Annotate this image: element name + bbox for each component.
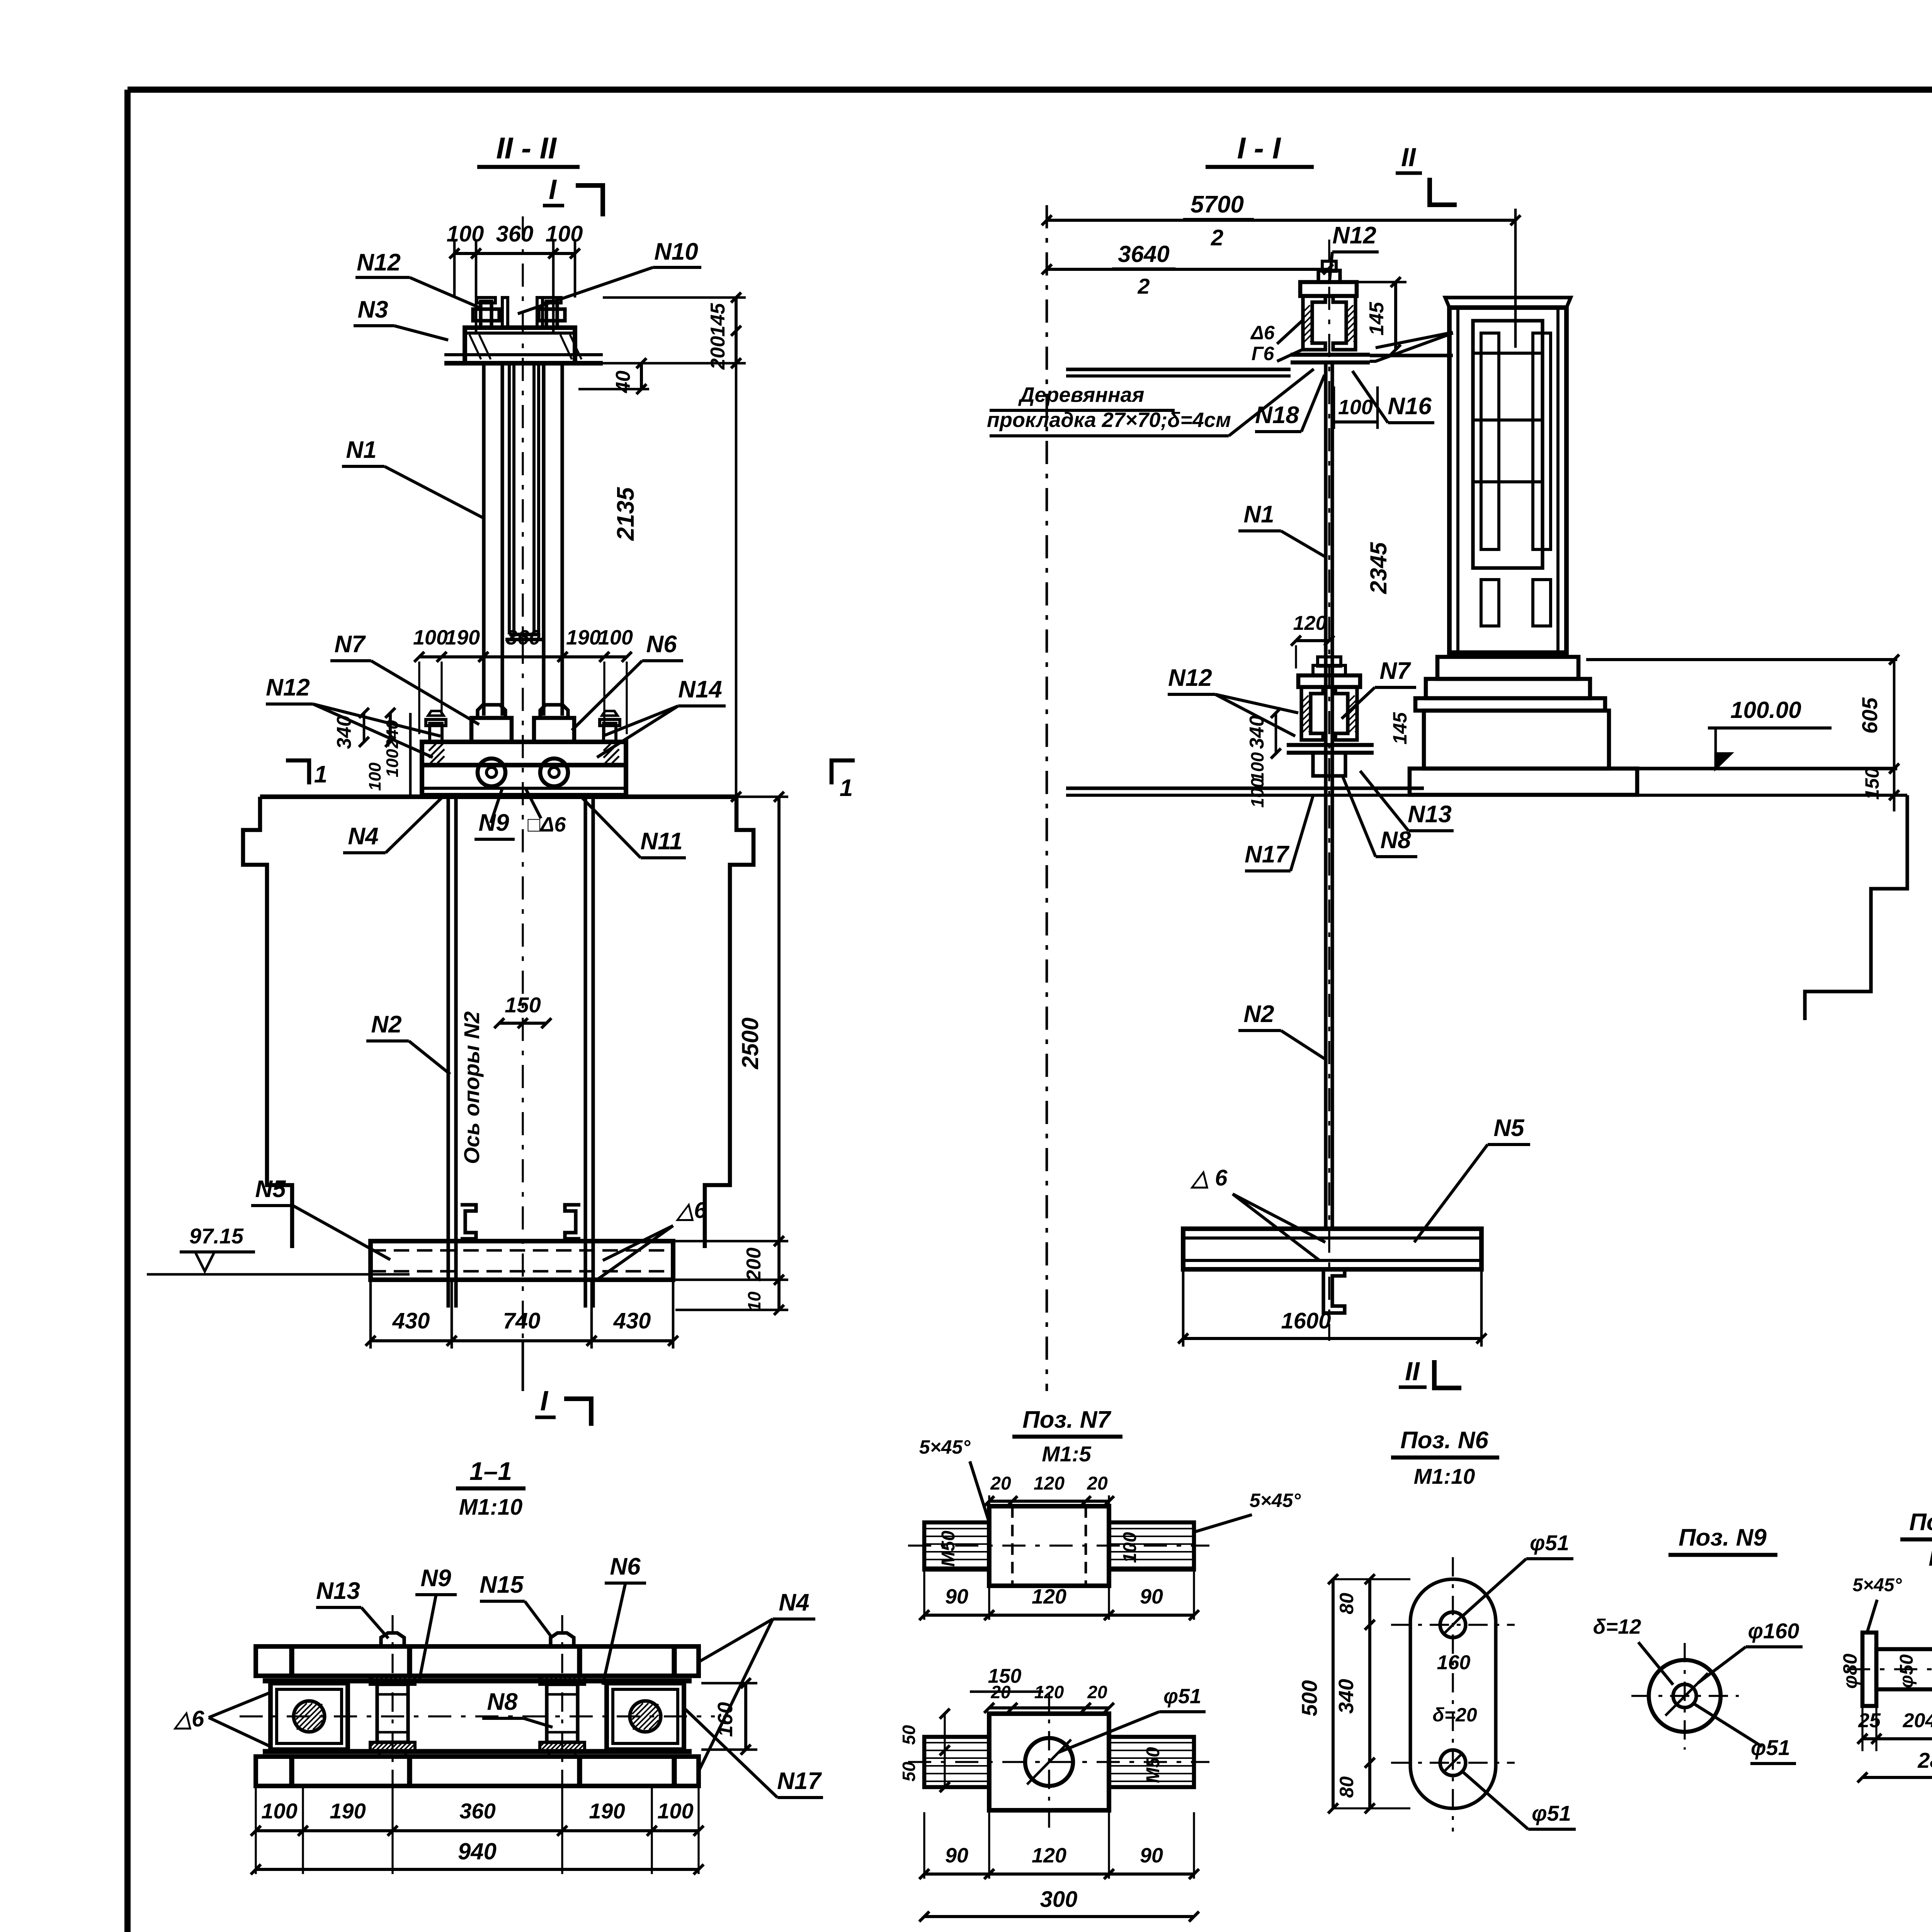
svg-text:100: 100	[1247, 752, 1267, 782]
vertical tie rods N1 (section II-II)	[482, 363, 485, 716]
svg-text:150: 150	[505, 993, 541, 1017]
svg-text:Поз. N6: Поз. N6	[1400, 1427, 1488, 1454]
dim 145 top right	[1358, 281, 1406, 284]
svg-text:430: 430	[613, 1308, 651, 1333]
svg-text:100: 100	[1120, 1532, 1140, 1563]
svg-text:I: I	[549, 174, 557, 205]
svg-text:100: 100	[447, 221, 484, 247]
svg-text:N2: N2	[371, 1011, 401, 1038]
svg-text:20: 20	[1087, 1473, 1108, 1494]
Poz N9 disc	[1649, 1660, 1721, 1732]
svg-text:N1: N1	[1243, 501, 1274, 528]
svg-text:Поз. N9: Поз. N9	[1679, 1524, 1767, 1551]
dim 150 inside pier	[499, 1022, 546, 1025]
svg-text:М1:5: М1:5	[1042, 1442, 1091, 1466]
left square tube with pin	[270, 1683, 348, 1750]
svg-text:2345: 2345	[1366, 542, 1391, 594]
Poz N8 dims	[1861, 1707, 1863, 1751]
svg-text:N12: N12	[1332, 222, 1376, 249]
svg-text:△6: △6	[675, 1198, 707, 1223]
svg-text:1600: 1600	[1281, 1308, 1331, 1333]
svg-text:φ50: φ50	[1896, 1654, 1917, 1688]
pin-joint bracket dims 100 190 360 190 100	[419, 655, 627, 658]
svg-text:200: 200	[707, 336, 729, 370]
svg-text:φ51: φ51	[1163, 1685, 1201, 1708]
svg-text:N2: N2	[1243, 1001, 1274, 1027]
svg-text:N7: N7	[1379, 658, 1411, 684]
svg-text:N15: N15	[480, 1571, 524, 1598]
svg-text:20: 20	[990, 1473, 1011, 1494]
svg-text:360: 360	[459, 1799, 495, 1823]
svg-text:200: 200	[743, 1248, 765, 1282]
svg-text:40: 40	[612, 371, 634, 393]
svg-text:II: II	[1405, 1357, 1420, 1386]
svg-text:Деревянная: Деревянная	[1018, 383, 1145, 406]
svg-text:1–1: 1–1	[469, 1457, 512, 1485]
svg-text:120: 120	[1032, 1585, 1066, 1608]
svg-text:145: 145	[707, 303, 729, 337]
svg-text:N4: N4	[348, 823, 378, 850]
svg-text:740: 740	[503, 1308, 541, 1333]
svg-text:δ=12: δ=12	[1593, 1615, 1641, 1638]
svg-text:50: 50	[899, 1725, 919, 1745]
svg-text:100: 100	[546, 221, 583, 247]
bolt assemblies in detail 1-1	[381, 1633, 404, 1646]
svg-text:145: 145	[1389, 712, 1411, 745]
svg-text:М50: М50	[1143, 1747, 1163, 1783]
svg-text:М1:5: М1:5	[1929, 1546, 1932, 1570]
svg-text:N16: N16	[1388, 393, 1432, 420]
svg-text:100.00: 100.00	[1730, 697, 1801, 723]
Poz N6 dims	[1332, 1579, 1335, 1808]
svg-text:I: I	[540, 1386, 549, 1417]
svg-text:Поз. N7: Поз. N7	[1022, 1406, 1111, 1433]
section marker I bottom	[522, 1341, 524, 1391]
svg-text:120: 120	[1034, 1682, 1064, 1702]
bottom channel (I-I)	[1183, 1229, 1481, 1269]
small channel stubs on pier	[461, 1205, 476, 1239]
svg-text:N14: N14	[678, 676, 722, 703]
svg-text:N7: N7	[334, 631, 366, 658]
bottom channel plate N5 (II-II)	[371, 1241, 673, 1280]
section marker 1 left	[286, 760, 309, 784]
right square tube with pin	[607, 1683, 684, 1750]
top anchor bracket (I-I)	[1318, 270, 1340, 282]
svg-text:N5: N5	[1493, 1115, 1525, 1141]
central tie rod (I-I)	[1324, 362, 1327, 1229]
vertical stiffener bars 1-1	[289, 1646, 294, 1676]
svg-text:△ 6: △ 6	[1190, 1165, 1228, 1190]
svg-text:φ160: φ160	[1748, 1619, 1799, 1643]
svg-text:δ=20: δ=20	[1432, 1704, 1477, 1726]
svg-text:190: 190	[589, 1799, 625, 1823]
svg-text:5700: 5700	[1190, 191, 1244, 218]
left dims 340 100 240 100	[389, 713, 392, 742]
centre line horizontal 1-1	[240, 1715, 715, 1717]
dims detail 1-1 bottom	[255, 1787, 257, 1874]
floor beam line left of bracket	[1066, 367, 1291, 371]
svg-text:N12: N12	[357, 249, 401, 276]
pier column (I-I elevation)	[1449, 308, 1566, 653]
svg-text:2: 2	[1211, 225, 1223, 250]
svg-text:5×45°: 5×45°	[1852, 1575, 1902, 1595]
svg-text:N4: N4	[779, 1589, 809, 1616]
svg-text:25: 25	[1858, 1709, 1881, 1732]
svg-text:М50: М50	[938, 1531, 959, 1567]
concrete pier outline (II-II)	[260, 794, 736, 799]
right dims 2500 200 10	[738, 796, 788, 798]
svg-text:340: 340	[333, 716, 355, 749]
centre line of anchor	[522, 216, 524, 1341]
svg-text:190: 190	[566, 626, 601, 649]
svg-text:90: 90	[1140, 1844, 1163, 1867]
dims detail 1-1 right 160 50 50	[701, 1682, 757, 1685]
svg-text:940: 940	[458, 1838, 497, 1864]
dimension 3640/2	[1047, 268, 1328, 271]
svg-text:120: 120	[1293, 612, 1327, 634]
svg-text:90: 90	[945, 1585, 968, 1608]
svg-text:N6: N6	[610, 1553, 641, 1580]
svg-text:100: 100	[1338, 396, 1373, 419]
pier leader from bracket	[1370, 333, 1453, 361]
svg-text:2135: 2135	[612, 487, 639, 541]
svg-text:N13: N13	[316, 1578, 360, 1604]
svg-text:340: 340	[1335, 1679, 1358, 1714]
svg-text:Г6: Г6	[1252, 343, 1275, 364]
svg-text:340: 340	[1246, 716, 1268, 749]
Poz N7 upper dims	[989, 1500, 1109, 1503]
dim 1600	[1182, 1271, 1185, 1347]
svg-text:605: 605	[1857, 697, 1882, 733]
svg-text:N3: N3	[357, 296, 388, 323]
svg-text:120: 120	[1034, 1473, 1065, 1494]
Poz N7 lower side dims 50 50	[944, 1714, 946, 1787]
pier stepped base	[1437, 657, 1578, 679]
svg-text:N8: N8	[1380, 827, 1411, 854]
svg-text:190: 190	[330, 1799, 366, 1823]
svg-text:97.15: 97.15	[189, 1224, 244, 1248]
svg-text:360: 360	[506, 626, 541, 649]
svg-text:100: 100	[383, 749, 402, 777]
small channel under (I-I)	[1323, 1269, 1345, 1313]
svg-text:300: 300	[1040, 1887, 1078, 1912]
svg-text:N13: N13	[1408, 801, 1452, 828]
section marker 1 right	[832, 760, 855, 784]
svg-text:100: 100	[598, 626, 633, 649]
detail 1-1 top plate N4	[256, 1646, 699, 1676]
svg-text:280: 280	[1917, 1748, 1932, 1772]
svg-text:360: 360	[496, 221, 534, 247]
Poz N6 obround plate	[1410, 1579, 1496, 1808]
svg-text:150: 150	[1861, 767, 1883, 800]
svg-text:20: 20	[990, 1682, 1011, 1702]
svg-text:□Δ6: □Δ6	[528, 813, 566, 836]
svg-text:100: 100	[261, 1799, 297, 1823]
svg-text:φ80: φ80	[1839, 1653, 1861, 1689]
svg-text:100: 100	[1247, 778, 1267, 808]
svg-text:Ось опоры N2: Ось опоры N2	[459, 1011, 484, 1164]
svg-text:100: 100	[657, 1799, 693, 1823]
svg-text:N11: N11	[640, 828, 682, 855]
svg-text:10: 10	[744, 1291, 764, 1311]
svg-text:500: 500	[1297, 1680, 1321, 1716]
svg-text:N1: N1	[346, 437, 376, 463]
svg-text:80: 80	[1336, 1593, 1357, 1614]
svg-text:160: 160	[1437, 1651, 1471, 1674]
svg-text:N18: N18	[1255, 402, 1299, 429]
detail 1-1 bottom plate	[256, 1757, 699, 1786]
svg-text:II: II	[1401, 143, 1417, 172]
dimension 100 360 100 top	[454, 252, 575, 255]
svg-text:М1:10: М1:10	[459, 1495, 522, 1520]
svg-text:1: 1	[314, 761, 327, 788]
svg-text:φ51: φ51	[1532, 1801, 1571, 1825]
ground line both sides	[1066, 786, 1424, 790]
right dimensions 145 200 40 2135	[603, 296, 746, 299]
lower anchor bracket (I-I)	[1313, 665, 1345, 675]
svg-text:N17: N17	[1245, 841, 1289, 868]
svg-text:2: 2	[1137, 274, 1150, 298]
svg-text:Δ6: Δ6	[1250, 322, 1275, 344]
svg-text:3640: 3640	[1118, 241, 1169, 267]
svg-text:90: 90	[1140, 1585, 1163, 1608]
svg-text:204: 204	[1903, 1709, 1932, 1732]
svg-text:240: 240	[383, 720, 402, 749]
berm line right of pier	[1586, 658, 1897, 661]
svg-text:N5: N5	[255, 1176, 286, 1202]
svg-text:2500: 2500	[737, 1017, 763, 1069]
svg-text:120: 120	[1032, 1844, 1066, 1867]
svg-text:80: 80	[1336, 1776, 1357, 1798]
svg-text:N6: N6	[646, 631, 677, 658]
svg-text:160: 160	[714, 1702, 737, 1737]
svg-text:I - I: I - I	[1237, 131, 1281, 165]
anchor rods inside pier	[446, 797, 450, 1308]
svg-text:N8: N8	[487, 1689, 518, 1715]
svg-text:190: 190	[445, 626, 480, 649]
svg-text:N12: N12	[266, 674, 310, 701]
detail 1-1 mid plates	[263, 1678, 692, 1683]
svg-text:N9: N9	[420, 1565, 451, 1592]
Poz N7 lower shaft with hole	[924, 1737, 989, 1787]
svg-text:5×45°: 5×45°	[1250, 1490, 1301, 1511]
svg-text:90: 90	[945, 1844, 968, 1867]
svg-text:Поз. N8: Поз. N8	[1909, 1509, 1932, 1536]
svg-text:М1:10: М1:10	[1414, 1464, 1475, 1488]
svg-text:100: 100	[366, 762, 384, 791]
beam line right of bracket toward pier	[1370, 354, 1453, 357]
svg-text:N12: N12	[1168, 665, 1212, 691]
upper channel bracket N3 with nuts N12 N10	[481, 301, 492, 328]
svg-text:1: 1	[840, 775, 853, 801]
dim 120 above lower bracket	[1296, 639, 1329, 642]
svg-text:N10: N10	[654, 238, 698, 265]
dims 430 740 430 bottom	[369, 1280, 372, 1349]
Poz N8 bolt	[1862, 1633, 1876, 1706]
right concrete steps	[1805, 795, 1907, 1020]
dimension 5700/2	[1046, 205, 1048, 1391]
svg-text:N17: N17	[777, 1768, 822, 1794]
svg-text:5×45°: 5×45°	[919, 1436, 971, 1458]
svg-text:20: 20	[1087, 1682, 1107, 1702]
svg-text:50: 50	[899, 1762, 919, 1782]
Poz N7 upper shaft	[924, 1522, 989, 1570]
pin joint assembly at pier top	[471, 718, 512, 742]
svg-text:145: 145	[1366, 302, 1388, 336]
svg-text:φ51: φ51	[1751, 1735, 1790, 1760]
svg-text:100: 100	[413, 626, 448, 649]
foundation slab	[1410, 769, 1637, 795]
svg-text:II - II: II - II	[496, 131, 557, 165]
svg-text:φ51: φ51	[1530, 1531, 1569, 1555]
svg-text:прокладка 27×70;δ=4см: прокладка 27×70;δ=4см	[987, 408, 1231, 432]
svg-text:△6: △6	[173, 1706, 205, 1731]
svg-text:430: 430	[392, 1308, 430, 1333]
